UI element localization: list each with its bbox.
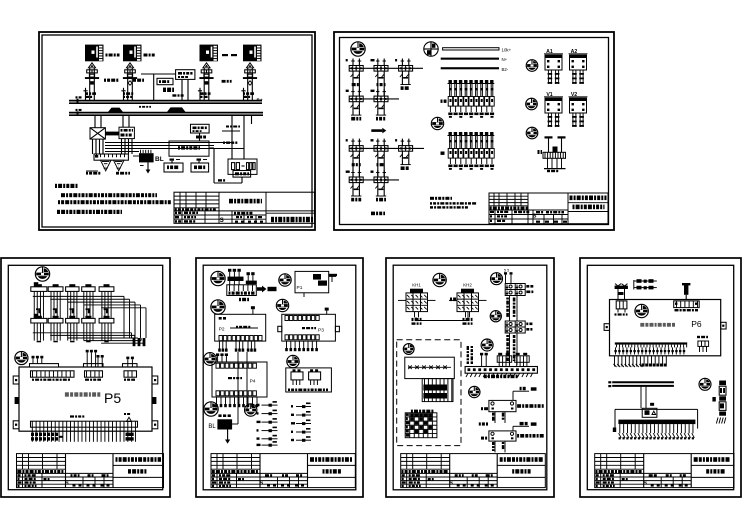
fan wiring row1 (33, 295, 124, 297)
FLD2 top wire TH+ (512, 426, 514, 431)
ref circle S4-4 (276, 299, 288, 311)
row2 column ticks (37, 341, 41, 343)
ref circle S4-5 (204, 353, 217, 366)
sheet 4 frame (196, 258, 363, 497)
svg-text:S: S (643, 481, 647, 487)
technical notes (55, 184, 57, 188)
MODBUS label above bus (172, 94, 176, 96)
ref circle S5-5 (403, 344, 414, 355)
ref circle S2-5 (526, 98, 538, 110)
P2 bottom cells (219, 336, 222, 341)
terminal ends (133, 338, 136, 346)
tick comb right drops (226, 126, 229, 128)
svg-text:BL: BL (155, 156, 164, 163)
logic inner box (405, 357, 455, 378)
ref circle S3-2 (15, 351, 28, 364)
mid label 10kV row1 (104, 79, 106, 82)
terminal box bottom right (286, 368, 332, 392)
P5 top connector plates (30, 364, 59, 367)
mid label 10kV row2 (133, 79, 136, 82)
LED table (405, 413, 437, 438)
output comb pins (619, 424, 621, 433)
ref circle S4-2 (279, 274, 291, 286)
arrester / CT stack 4 (246, 63, 253, 68)
pin group b (86, 350, 89, 353)
connector bar row 1 (31, 287, 47, 292)
power marks row (479, 422, 481, 425)
company name bold (271, 217, 274, 222)
output bar (618, 420, 695, 425)
svg-text:P1: P1 (297, 285, 303, 291)
ref circle S4-1 (211, 271, 225, 285)
label between box1-2 (106, 54, 108, 57)
right drops from bus (231, 115, 233, 159)
breaker row D (349, 179, 399, 181)
sheet 5 title block (401, 454, 546, 488)
ref circle S6-1 (635, 304, 648, 317)
FLD2 right text (517, 434, 519, 438)
comb block B (515, 356, 530, 363)
terminal comb box (94, 154, 128, 160)
controller box (176, 70, 195, 80)
bus drop to NFC (640, 386, 642, 408)
ref circle S2-4 (526, 60, 538, 72)
bus L2 (double line) (69, 112, 263, 114)
arrester / CT stack 3 (203, 63, 210, 68)
monitor wire right (209, 147, 214, 149)
KK2 label (441, 152, 445, 155)
BL arrow down (227, 430, 229, 441)
mid label right pair (222, 80, 226, 83)
ref circle S5-4 (481, 339, 493, 351)
terminal strip groups (467, 346, 469, 350)
bottom label blob (371, 212, 375, 216)
transformer B (548, 138, 550, 153)
input terminal bar (465, 367, 537, 374)
sheet 6 title block (595, 454, 734, 488)
winding funnel 1 (101, 160, 112, 171)
small unit box 1 (164, 163, 183, 172)
svg-text:S: S (449, 481, 453, 487)
wire number tags (38, 308, 40, 313)
FH label (239, 298, 241, 301)
ref circle S2-1 (351, 42, 365, 56)
FLD1 right text (517, 404, 521, 408)
connector bar row 2 (31, 318, 47, 323)
pin group c (126, 357, 129, 360)
wire bundle to the right (105, 142, 232, 144)
resistor bank KK2 (449, 132, 452, 135)
bus junction blob A (108, 108, 123, 112)
ref circle S6-2 (699, 378, 711, 390)
FH right arrow (257, 286, 267, 293)
ref circle S5-3 (490, 311, 501, 322)
P3 top pin (325, 308, 329, 311)
sheet 4 title block (211, 454, 355, 488)
wire transducer drop (153, 74, 155, 101)
box P2 (215, 314, 266, 341)
X1 side labels (526, 285, 529, 288)
ref circle S5-6 (469, 386, 480, 397)
top-left T pins (617, 289, 619, 300)
sheet1 right divider (266, 212, 315, 214)
thick link bar (105, 132, 119, 136)
logic comb (422, 379, 453, 402)
P6 485 comb (698, 341, 709, 346)
ref circle S4-3 (211, 300, 225, 314)
resistor bank KK1 (449, 80, 452, 83)
wire comb below P6 (614, 356, 616, 367)
relay terminal box 4 (243, 45, 262, 62)
jumper link rows (637, 279, 642, 283)
feeder line 10k+ (hollow bar) (443, 48, 499, 50)
right terminal strip (719, 381, 726, 386)
svg-text:N+: N+ (502, 57, 508, 62)
reactor BL (139, 153, 154, 162)
P5 small note (70, 415, 74, 417)
hatch under bar (466, 373, 468, 377)
box P3 (282, 314, 336, 341)
comb block A (497, 356, 512, 363)
side black squares (15, 397, 19, 404)
ref circle S4-7 (204, 402, 218, 416)
voltage sample box (191, 124, 210, 133)
P3 side tabs (278, 326, 282, 331)
bus name left 1 (76, 96, 78, 98)
feeder drop to switch boxes (94, 115, 96, 127)
svg-text:B2-: B2- (502, 67, 509, 72)
P6 top-left connector (616, 301, 627, 309)
P6 top-right connector (674, 301, 700, 308)
P5 warn mark (127, 417, 132, 421)
relay terminal box 3 (200, 45, 219, 62)
output end marks (613, 428, 616, 433)
connector block X1 (505, 284, 525, 296)
input bar label (484, 375, 487, 379)
wires below X2 (509, 333, 511, 365)
FLD1 box (489, 400, 516, 411)
ref circle S4-8 (245, 404, 257, 416)
small cross marks on bus (139, 106, 141, 108)
ref circle S3-1 (35, 267, 49, 281)
switch box with X (90, 128, 105, 139)
P5 bottom terminal strip (31, 421, 138, 427)
svg-text:B+: B+ (257, 98, 263, 103)
connector blob left of drop (163, 88, 166, 92)
ref circle S5-1 (433, 273, 446, 286)
ref circle S2-2 crosshair (424, 42, 438, 56)
monitor unit box (169, 141, 209, 156)
battery label box (233, 171, 251, 178)
svg-text:P2: P2 (219, 327, 225, 333)
svg-text:P5: P5 (104, 390, 121, 406)
sheet 6 frame (580, 258, 741, 497)
x-marks line (408, 366, 451, 368)
FH connector box (227, 285, 256, 296)
P4 top pins (216, 353, 219, 356)
P4 below pins (216, 397, 218, 404)
module P5 box (19, 367, 152, 431)
svg-text:10k+: 10k+ (502, 47, 512, 52)
sheet 2 frame (334, 32, 614, 230)
BL earth arrow (147, 162, 149, 170)
P1 wire right (329, 275, 336, 277)
routing wire from P2 area (237, 352, 239, 424)
breaker row B (349, 98, 399, 100)
UMP label (196, 136, 199, 139)
feeder line N+ (441, 58, 499, 60)
s2 tb bottom rows (489, 209, 568, 211)
P5 mounting ears (13, 376, 19, 384)
svg-text:P3: P3 (318, 328, 324, 334)
svg-text:BL: BL (208, 424, 216, 430)
P3 below pins (286, 341, 288, 348)
P6 bottom pin rows (615, 347, 617, 354)
P5 inner connector combs (31, 371, 75, 377)
sheet 1 dense row (175, 208, 177, 211)
wires from switch boxes down (92, 139, 94, 154)
FLD2 below wires (494, 441, 496, 452)
bottom tiny mark (60, 436, 63, 438)
bus junction blob B (167, 107, 186, 112)
fan wiring row2 (33, 332, 132, 334)
arrester / CT stack 2 (126, 63, 133, 68)
sheet 1 title text (229, 199, 233, 204)
sub connector a (291, 372, 303, 380)
sheet 1 tb bottom rows (174, 214, 266, 216)
pins 5 5 (504, 272, 507, 274)
P5 bottom pins (31, 431, 33, 442)
pins above small units (170, 159, 175, 161)
dashed logic box (397, 340, 461, 446)
battery assembly box (228, 159, 257, 174)
box P1 (295, 271, 329, 292)
reactor BL sheet4 (218, 414, 221, 417)
company name bold S2 (568, 202, 608, 204)
pin group a (32, 356, 35, 359)
transducer box (157, 78, 173, 84)
funnel labels (86, 172, 88, 175)
svg-text:S: S (220, 218, 224, 224)
title dense row (490, 207, 492, 210)
feeder line B2- (441, 67, 499, 69)
bottom connector block left (31, 433, 34, 436)
svg-text:S: S (533, 214, 537, 220)
wire controller to bus (181, 79, 183, 100)
P5 module title text (65, 392, 69, 396)
relay terminal box 1 (85, 45, 104, 62)
switch box 2 hatched (119, 127, 134, 138)
row2 legs (33, 323, 35, 341)
FLD2 box (489, 431, 516, 441)
sheet 1 title block (174, 192, 315, 223)
svg-text:KH1: KH1 (412, 283, 421, 288)
breaker row A (349, 67, 423, 69)
sheet 3 frame (1, 258, 170, 497)
svg-text:P6: P6 (691, 319, 702, 329)
sub connector b (309, 372, 321, 380)
KH link wire (415, 317, 417, 320)
ref circle S2-6 (526, 127, 538, 139)
UER label (218, 179, 222, 181)
P6 bottom toothed bar (615, 342, 687, 344)
P6 grey title (640, 323, 644, 327)
big output connector outline (614, 409, 616, 428)
label between box2-3 dashes (144, 54, 148, 57)
sheet 5 frame (386, 258, 554, 497)
svg-text:P4: P4 (250, 379, 256, 385)
sheet 2 title block (489, 193, 608, 224)
P2 below pin clusters (218, 341, 220, 348)
wires X1-X2 with labels (509, 296, 511, 322)
arrester / CT stack 1 (88, 63, 95, 68)
svg-text:KH2: KH2 (463, 283, 472, 288)
P2 top pin (251, 306, 255, 309)
breaker row C (349, 147, 424, 149)
terminal box text (288, 389, 290, 392)
relay contact column (262, 404, 269, 406)
KH2 left marks (450, 298, 452, 302)
X2 side labels (526, 323, 528, 326)
LED table label (411, 410, 413, 413)
NFC box (642, 408, 657, 417)
svg-text:S: S (65, 481, 69, 487)
sheet 3 title block (17, 454, 164, 488)
bottom connector block right (126, 433, 134, 436)
dashes between box3-4 (222, 54, 228, 56)
relay terminal box 2 (123, 45, 142, 62)
right black pin (684, 285, 688, 295)
bus L1 (double line) (69, 100, 262, 102)
KK1 label (441, 100, 443, 103)
FLD1 top wire TH+ (512, 391, 514, 400)
P6 mounting tabs (604, 324, 609, 331)
box P4 (212, 362, 267, 397)
bus name left 2 (76, 109, 78, 111)
small unit box 2 (191, 163, 209, 172)
winding funnel 2 (114, 160, 125, 171)
legend note lines (430, 197, 434, 200)
row1 legs down to row2 (33, 291, 35, 318)
module P6 box (610, 300, 721, 356)
arrow mark (371, 129, 382, 132)
svg-text:5 5: 5 5 (504, 269, 509, 273)
svg-text:S: S (260, 481, 264, 487)
bus pair sheet6 (612, 381, 674, 383)
FH connector pins (228, 269, 231, 272)
connector block X2 (505, 321, 525, 333)
ref circle S5-2 (491, 273, 503, 285)
ref circle S2-3 (431, 117, 443, 129)
sheet 1 frame (39, 32, 315, 230)
ref circle S4-6 (287, 355, 299, 367)
strip side square (712, 397, 715, 402)
FLD1 below wires (494, 412, 496, 423)
